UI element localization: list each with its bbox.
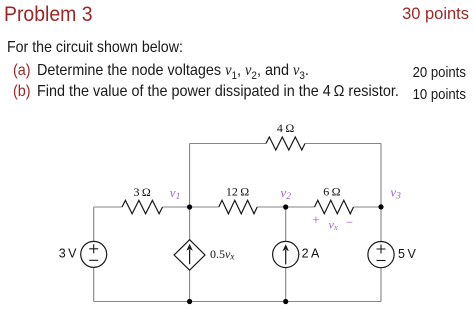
line (b)	[13, 83, 31, 101]
wire v1 branch top	[189, 144, 191, 240]
wire middle rail: left corner to 3ohm	[94, 206, 122, 208]
voltage source 3V circle	[81, 241, 107, 267]
svg-text:v2: v2	[281, 185, 292, 202]
resistor 3ohm	[122, 200, 163, 214]
wire top rail right segment	[305, 143, 381, 145]
wire v1 branch bottom	[189, 270, 191, 301]
svg-text:+: +	[312, 214, 320, 229]
voltage source 5V circle	[368, 242, 394, 268]
wire left branch (3V source)	[93, 207, 95, 302]
svg-text:2 A: 2 A	[302, 247, 320, 261]
heading 30 points	[402, 4, 469, 24]
wire top rail left segment	[190, 143, 266, 145]
svg-text:v1: v1	[170, 185, 181, 202]
svg-text:vx: vx	[329, 218, 338, 233]
heading Problem 3	[4, 3, 93, 27]
svg-text:3 V: 3 V	[59, 247, 77, 261]
svg-text:v3: v3	[390, 185, 401, 202]
line: For the circuit shown below:	[7, 39, 183, 57]
svg-text:5 V: 5 V	[398, 247, 416, 261]
svg-text:0.5vx: 0.5vx	[210, 247, 234, 262]
node v2 junction dot	[283, 204, 288, 209]
5V minus sign	[377, 260, 386, 262]
3V plus sign	[89, 244, 98, 253]
resistor 4ohm	[266, 137, 305, 150]
bottom junction dot right	[283, 299, 288, 304]
2A arrow	[285, 250, 287, 264]
resistor 6ohm	[315, 200, 354, 214]
5V plus sign	[377, 245, 386, 254]
resistor 12ohm	[219, 200, 257, 214]
wire 3ohm to node v1	[163, 206, 219, 208]
wire v2 branch	[285, 207, 287, 302]
node v3 junction dot	[378, 204, 383, 209]
wire 12ohm to node v2	[257, 206, 314, 208]
svg-text:4 Ω: 4 Ω	[277, 121, 294, 135]
svg-text:12 Ω: 12 Ω	[226, 184, 249, 198]
bottom junction dot left	[187, 299, 192, 304]
node v1 junction dot	[187, 204, 192, 209]
svg-text:3 Ω: 3 Ω	[134, 185, 151, 199]
svg-text:−: −	[346, 215, 353, 230]
wire bottom rail	[94, 301, 381, 303]
current source 2A circle	[273, 241, 299, 267]
line (a)	[13, 62, 31, 80]
wire 6ohm to node v3	[354, 206, 382, 208]
dependent source diamond 0.5vx	[174, 240, 205, 271]
3V minus sign	[89, 259, 98, 261]
dependent source arrow	[189, 250, 191, 265]
wire v3 branch	[380, 144, 382, 302]
svg-text:6 Ω: 6 Ω	[323, 185, 340, 199]
